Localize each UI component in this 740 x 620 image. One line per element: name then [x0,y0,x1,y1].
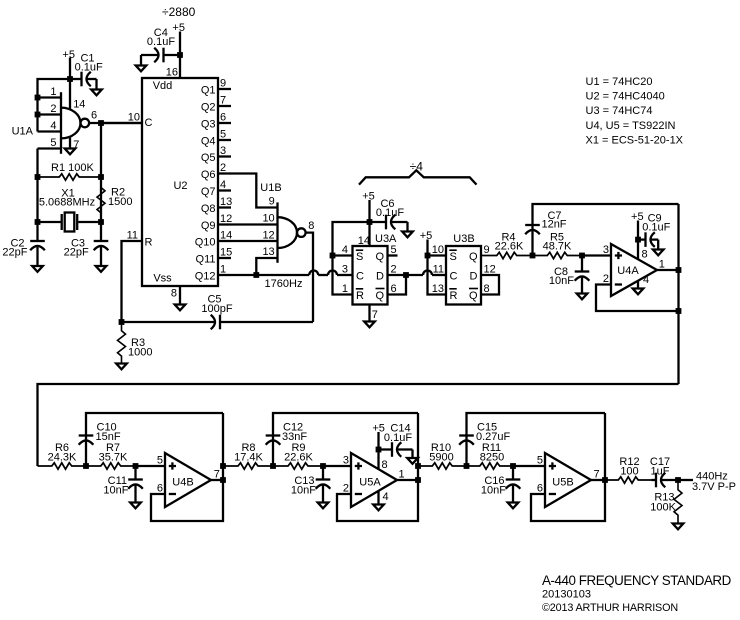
svg-text:11: 11 [433,264,444,276]
U3A R-bar input [356,289,364,302]
wire: long feedback run to filters [38,384,679,466]
label 22.6K (R9) [284,452,313,464]
label U2 [173,180,187,192]
svg-text:0.1uF: 0.1uF [384,432,412,444]
resistor R11 [467,463,514,469]
svg-text:R: R [145,236,153,248]
svg-text:10nF: 10nF [291,485,316,497]
svg-text:7: 7 [220,95,226,107]
U2 pin 1 Q12 stub [195,264,231,283]
svg-text:1: 1 [342,283,348,295]
svg-text:Q2: Q2 [201,101,216,113]
svg-text:100: 100 [620,466,638,478]
op-amp U4B [165,453,211,507]
svg-text:13: 13 [432,283,444,295]
U5A pin 4 lead [379,491,389,505]
svg-text:U3B: U3B [453,233,474,245]
wire: output node down right rail [98,123,104,241]
label 3.7V P-P [692,481,736,493]
U1A pin 6 output wire [89,110,142,126]
label U3B [453,233,474,245]
U2 pin 7 Q2 stub [201,95,231,114]
svg-text:1000: 1000 [128,347,152,359]
svg-text:C: C [356,271,364,283]
svg-text:Q11: Q11 [196,253,216,265]
svg-text:8: 8 [642,249,648,261]
ground (U4A pin 4) [633,289,644,295]
svg-text:U1 = 74HC20: U1 = 74HC20 [586,76,653,88]
svg-text:U5B: U5B [552,477,573,489]
ground (R3) [116,364,127,370]
wire: U5B pin 6 feedback [531,413,605,521]
label +5 (U4A) [631,211,644,223]
svg-text:8: 8 [484,283,490,295]
ground (C1) [91,90,102,96]
svg-text:6: 6 [537,483,543,495]
svg-text:+5: +5 [172,22,185,34]
title A-440 FREQUENCY STANDARD [542,573,732,588]
ground (C3) [96,266,107,272]
svg-text:6: 6 [91,110,97,122]
ground (U1A pin 7) [65,149,76,155]
label R5 [550,232,564,244]
svg-text:1: 1 [659,259,665,271]
svg-text:12: 12 [262,230,274,242]
wire: U4B pin 6 feedback [151,413,226,521]
U3B Q output [469,244,490,263]
label divide-by-4 [410,159,424,173]
label 10nF (C16) [481,485,506,497]
svg-text:9: 9 [220,78,226,90]
svg-text:7: 7 [372,309,378,321]
svg-text:4: 4 [383,491,389,503]
label 5.0688MHz [39,197,95,209]
svg-text:35.7K: 35.7K [99,452,128,464]
resistor R2 [97,177,105,222]
U1A pin 14 lead [70,79,85,111]
svg-text:D: D [376,271,384,283]
resistor R13 [674,480,682,524]
capacitor C1 [70,72,97,90]
label 22.6K (R4) [495,241,524,253]
label C12 [283,422,303,434]
svg-text:4: 4 [342,244,348,256]
svg-text:14: 14 [220,230,232,242]
svg-text:0.1uF: 0.1uF [147,36,175,48]
wire: U3B D to Q-bar loop [481,275,499,295]
svg-text:10nF: 10nF [481,485,506,497]
wire: Q6 to U1B pin 9 [231,174,278,208]
svg-text:7: 7 [594,469,600,481]
label R3 [131,337,145,349]
svg-text:3: 3 [220,145,226,157]
label C8 [554,266,568,278]
svg-text:1: 1 [50,86,56,98]
U3B D input [470,264,496,283]
label 1500 (R2) [108,196,132,208]
U2 pin 15 Q11 stub [196,247,233,266]
capacitor C10 [79,436,94,445]
label R8 [241,442,255,454]
svg-text:16: 16 [166,67,178,79]
svg-text:Q: Q [469,290,478,302]
svg-text:0.1uF: 0.1uF [75,62,103,74]
wire: U4B feedback top [83,413,223,469]
svg-text:Q8: Q8 [201,203,216,215]
label U4B [172,477,193,489]
ground (C14) [407,458,418,464]
svg-text:10nF: 10nF [549,275,574,287]
svg-text:22.6K: 22.6K [284,452,313,464]
svg-text:8: 8 [171,288,177,300]
wire: U3A D to Q-bar loop [388,272,409,294]
label 0.1uF (C1) [75,62,103,74]
svg-text:Vdd: Vdd [153,80,173,92]
U2 pin 14 Q10 stub [195,230,233,249]
divide-by-4 brace [359,170,477,184]
U2 pin 8 lead [171,286,180,305]
wire: U5A feedback top [270,413,418,469]
resistor R7 [86,463,136,469]
label 0.1uF (C14) [384,432,412,444]
svg-text:1760Hz: 1760Hz [265,278,303,290]
U4A pin 4 lead [638,274,649,289]
U3A pin labels left [342,244,348,295]
svg-text:3: 3 [343,455,349,467]
label 0.1uF (C6) [376,207,404,219]
label 22pF (C3) [64,247,89,259]
label C4 [154,27,168,39]
capacitor C16 [506,466,521,503]
svg-text:Q5: Q5 [201,152,216,164]
svg-text:1uF: 1uF [651,466,670,478]
label R1 100K [51,162,94,174]
U4B output wire [211,469,226,483]
label C3 [71,238,85,250]
ground (C13) [318,503,329,509]
U4A plus input [603,244,622,259]
title copyright [542,602,678,614]
U5B minus input [537,483,556,495]
svg-text:10: 10 [128,112,140,124]
svg-text:6: 6 [391,283,397,295]
svg-text:22pF: 22pF [2,247,27,259]
svg-text:1: 1 [220,264,226,276]
U2 pin 4 Q7 stub [201,179,231,198]
svg-text:5.0688MHz: 5.0688MHz [39,197,95,209]
parts list line U2 [586,91,665,103]
svg-text:33nF: 33nF [282,431,307,443]
svg-text:4: 4 [220,179,226,191]
U3B supply wire and left loop [425,240,446,295]
label 1000 (R3) [128,347,152,359]
svg-text:÷4: ÷4 [410,159,424,173]
wire: U3A D out to U3B pin 11 [406,271,446,276]
label C7 [547,210,561,222]
resistor R4 [481,252,533,258]
svg-text:U1B: U1B [260,182,281,194]
svg-text:9: 9 [269,196,275,208]
parts list line X1 [586,134,684,146]
ground (R13) [673,524,684,530]
label 10nF (C8) [549,275,574,287]
svg-text:10: 10 [262,213,274,225]
label 17.4K (R8) [234,452,263,464]
label 12nF (C7) [541,219,566,231]
svg-text:2: 2 [343,483,349,495]
label R12 [619,456,639,468]
label 100pF (C5) [201,303,232,315]
svg-text:5: 5 [391,244,397,256]
svg-text:20130103: 20130103 [542,589,591,601]
U3A C input [356,271,364,283]
svg-text:Q: Q [469,251,478,263]
svg-text:U2 = 74HC4040: U2 = 74HC4040 [586,91,665,103]
capacitor C11 [128,466,143,503]
U2 pin 11 R input wire [122,230,153,323]
label Vdd [153,80,173,92]
svg-text:8: 8 [308,220,314,232]
svg-text:100K: 100K [650,502,676,514]
svg-text:3: 3 [603,244,609,256]
U1A pin 7 lead [70,138,79,152]
resistor R5 [533,252,583,258]
label C2 [10,238,24,250]
resistor R10 [418,463,467,469]
label 10nF (C11) [103,485,128,497]
label 0.27uF (C15) [476,431,511,443]
svg-text:U2: U2 [173,180,187,192]
svg-text:12: 12 [220,213,232,225]
svg-text:5: 5 [157,455,163,467]
svg-text:12: 12 [484,264,496,276]
svg-text:1500: 1500 [108,196,132,208]
capacitor C15 [459,436,474,445]
label R2 [111,187,125,199]
U4B plus input [157,455,176,470]
label 100 (R12) [620,466,638,478]
svg-text:Q9: Q9 [201,220,216,232]
svg-text:7: 7 [214,469,220,481]
label C5 [207,294,221,306]
label X1 [61,188,74,200]
svg-text:Q7: Q7 [201,186,216,198]
U3A S-bar input [356,250,364,263]
U2 pin 6 Q3 stub [201,112,231,131]
wire: R9 to U5A pin 3 [320,463,351,469]
label C11 [108,475,127,487]
ground (C2) [32,266,43,272]
svg-text:4: 4 [50,120,56,132]
U1B pin 8 output wire [306,220,314,322]
svg-text:3: 3 [342,264,348,276]
label 0.1uF (C9) [642,222,670,234]
flip-flop U3A body [353,246,388,305]
label U5A [359,477,381,489]
U3B S-bar input [449,250,457,263]
capacitor C8 [575,256,590,294]
svg-text:14: 14 [358,235,370,247]
U5A plus input [343,455,362,470]
label 35.7K (R7) [99,452,128,464]
wire: U5A pin 2 feedback [337,413,421,521]
wire: R7 to U4B pin 5 [133,463,165,469]
label U1A [12,126,34,138]
svg-text:4: 4 [643,274,649,286]
svg-text:8250: 8250 [480,452,504,464]
svg-text:S: S [356,251,363,263]
crystal X1 [38,213,102,232]
svg-text:2: 2 [50,103,56,115]
svg-text:6: 6 [157,483,163,495]
svg-text:U1A: U1A [12,126,34,138]
label 100K (R13) [650,502,676,514]
svg-text:R: R [450,290,458,302]
U2 pin 9 Q1 stub [201,78,231,97]
svg-text:Q12: Q12 [195,270,216,282]
resistor R12 [605,477,652,483]
U5B plus input [537,455,556,470]
wire: pin5 node down left rail [35,149,41,242]
capacitor C9 [638,232,658,249]
U5A minus input [343,483,362,495]
label R7 [106,442,120,454]
nand gate U1B [278,202,306,262]
svg-text:R: R [356,290,364,302]
label 5900 (R10) [429,452,453,464]
svg-text:2: 2 [220,162,226,174]
svg-text:17.4K: 17.4K [234,452,263,464]
ground (C6) [402,232,413,238]
label C10 [97,422,117,434]
svg-text:10nF: 10nF [103,485,128,497]
label Vss [153,273,172,285]
nand gate U1A [61,92,89,154]
label 440Hz [696,471,728,483]
svg-text:÷2880: ÷2880 [162,5,196,19]
wire: output node [675,477,693,483]
svg-text:5: 5 [50,137,56,149]
wire: +5/C1 node to U1A inputs rail [35,58,73,132]
parts list line U4 U5 [586,120,676,132]
title date 20130103 [542,589,591,601]
capacitor C7 [525,225,540,234]
svg-text:13: 13 [220,196,232,208]
svg-text:3.7V P-P: 3.7V P-P [692,481,736,493]
svg-text:Q4: Q4 [201,135,216,147]
svg-text:22pF: 22pF [64,247,89,259]
label +5 (U3B) [420,230,433,242]
svg-text:U3 = 74HC74: U3 = 74HC74 [586,105,653,117]
svg-text:0.1uF: 0.1uF [642,222,670,234]
U3A Q output [375,244,397,263]
op-amp U4A [611,244,657,296]
ground (U3A pin 7) [364,322,375,328]
U3B C input [450,271,458,283]
label U1B [260,182,281,194]
wire: U4A pin 2 feedback [596,285,681,314]
label 24.3K (R6) [48,452,77,464]
capacitor C12 [266,436,281,445]
svg-text:C: C [450,271,458,283]
svg-text:U4, U5 = TS922IN: U4, U5 = TS922IN [586,120,676,132]
svg-text:2: 2 [391,264,397,276]
resistor R9 [273,463,323,469]
svg-text:6: 6 [220,112,226,124]
wire: U5B feedback top [464,413,605,469]
capacitor C13 [316,466,331,503]
svg-text:5: 5 [537,455,543,467]
label divide-by-2880 [162,5,196,19]
svg-text:Q: Q [375,290,384,302]
ground (C8) [577,294,588,300]
svg-text:Q: Q [375,251,384,263]
flip-flop U3B body [446,246,481,305]
U2 pin 12 Q9 stub [201,213,232,232]
U3B Q-bar output [469,283,490,302]
svg-text:15nF: 15nF [96,431,121,443]
svg-text:12nF: 12nF [541,219,566,231]
wire: Q12 1760Hz to U3A pin 3 [231,271,353,276]
capacitor C4 [141,48,180,66]
svg-text:0.27uF: 0.27uF [476,431,511,443]
svg-text:Q6: Q6 [201,169,216,181]
wire: U4A feedback top [530,204,679,258]
U2 pin 5 Q4 stub [201,129,231,148]
svg-text:Q3: Q3 [201,118,216,130]
label R4 [501,232,515,244]
ground (U2 pin 8) [175,305,186,311]
svg-text:U5A: U5A [359,477,381,489]
label +5 (U5A) [372,423,385,435]
label 22pF (C2) [2,247,27,259]
label R13 [654,492,674,504]
svg-text:U4A: U4A [617,265,639,277]
wire: R5 to U4A pin 3 [579,253,611,259]
label U4A [617,265,639,277]
U1A pin 1 stub [38,86,62,98]
IC U2 body [142,78,218,286]
svg-text:R1 100K: R1 100K [51,162,94,174]
U4A output wire [657,259,681,273]
svg-text:Q1: Q1 [201,84,216,96]
svg-text:A-440 FREQUENCY STANDARD: A-440 FREQUENCY STANDARD [542,573,732,588]
capacitor C14 [379,442,413,458]
label C9 [648,213,662,225]
svg-text:1: 1 [399,469,405,481]
label R10 [431,442,451,454]
U3A supply wire and left loop [330,200,373,295]
label R6 [55,442,69,454]
parts list line U1 [586,76,653,88]
U4A minus input [603,273,622,285]
U5A output wire [397,469,421,483]
label +5 (C1 node) [62,49,75,61]
op-amp U5B [545,453,591,507]
ground (C4) [136,66,147,72]
capacitor C6 [370,215,408,232]
U4A pin 8 lead [635,221,648,261]
resistor R1 [38,174,102,180]
svg-text:11: 11 [127,230,138,242]
svg-text:48.7K: 48.7K [543,241,572,253]
U3B pin labels left [432,244,444,295]
ground (C9) [653,250,664,256]
label C16 [484,475,504,487]
label U5B [552,477,573,489]
svg-text:100pF: 100pF [201,303,232,315]
label C1 [80,53,94,65]
